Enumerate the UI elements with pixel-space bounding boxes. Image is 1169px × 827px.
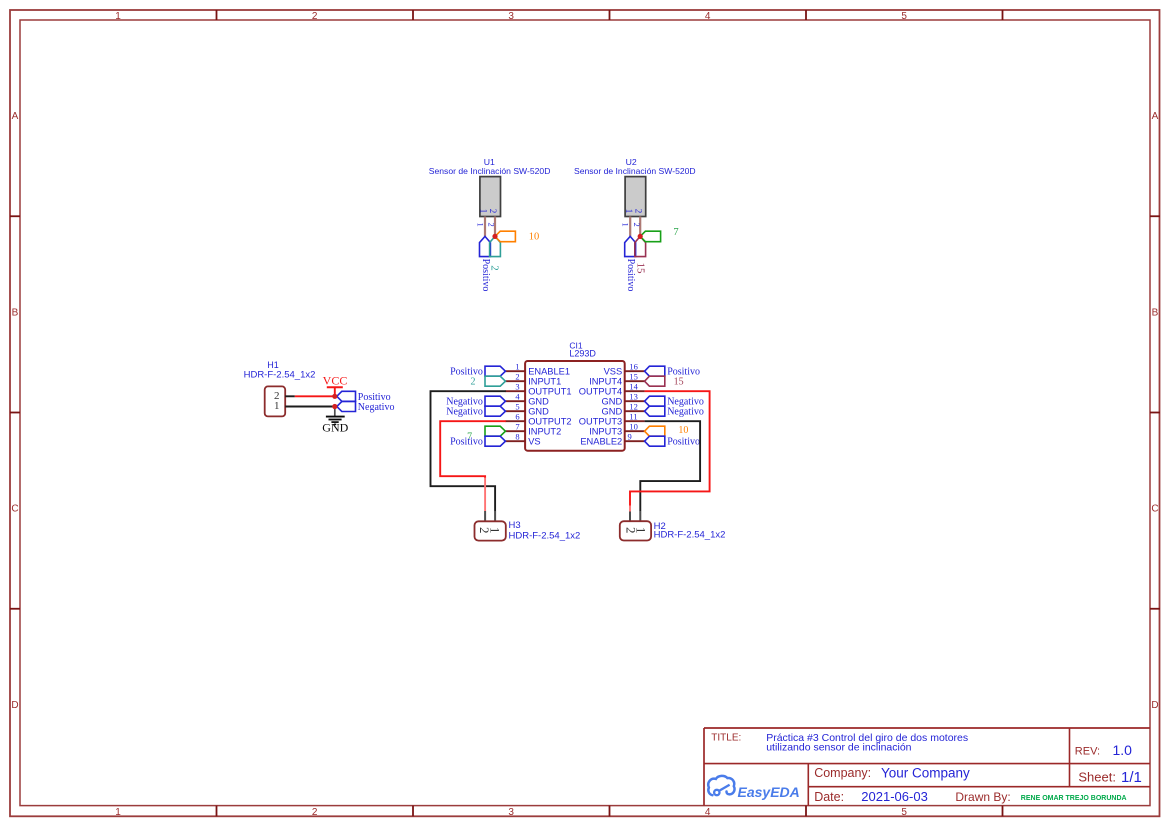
- svg-text:ENABLE2: ENABLE2: [580, 437, 622, 447]
- EasyEDA logo: [708, 776, 800, 800]
- svg-text:1: 1: [624, 209, 634, 214]
- net flag Negativo (CI1 pin 5): [446, 406, 505, 417]
- net flag Positivo (CI1 pin 1): [450, 366, 505, 377]
- svg-text:GND: GND: [322, 421, 348, 435]
- svg-text:5: 5: [901, 11, 907, 22]
- svg-text:RENE OMAR TREJO BORUNDA: RENE OMAR TREJO BORUNDA: [1021, 795, 1127, 802]
- svg-text:Date:: Date:: [814, 790, 844, 804]
- svg-text:5: 5: [515, 401, 519, 411]
- CI1 pin 7 INPUT2: [505, 421, 561, 436]
- svg-text:2: 2: [489, 265, 501, 271]
- svg-text:1: 1: [488, 527, 503, 534]
- svg-text:1: 1: [634, 527, 649, 534]
- CI1 pin 12 GND: [602, 401, 645, 416]
- svg-text:OUTPUT4: OUTPUT4: [579, 387, 622, 397]
- wire H1 pin 1 to GND node: [285, 406, 335, 408]
- U1 pin 2: [487, 209, 499, 237]
- svg-text:INPUT4: INPUT4: [589, 377, 622, 387]
- CI1 pin 1 ENABLE1: [505, 361, 570, 376]
- svg-text:3: 3: [508, 807, 514, 818]
- svg-text:INPUT3: INPUT3: [589, 427, 622, 437]
- svg-text:11: 11: [629, 411, 637, 421]
- svg-text:12: 12: [629, 401, 638, 411]
- wire H1 pin 2 to VCC node: [285, 395, 335, 397]
- svg-text:8: 8: [515, 431, 519, 441]
- svg-text:2: 2: [487, 222, 497, 226]
- CI1 pin 4 GND: [505, 391, 549, 406]
- svg-text:HDR-F-2.54_1x2: HDR-F-2.54_1x2: [244, 370, 316, 381]
- svg-text:Negativo: Negativo: [358, 402, 395, 413]
- svg-text:5: 5: [901, 807, 907, 818]
- CI1 pin 10 INPUT3: [589, 421, 644, 436]
- svg-text:13: 13: [629, 391, 638, 401]
- sensor U2 Sensor de Inclinacion SW-520D: [574, 157, 696, 217]
- title block Company: [814, 766, 970, 781]
- svg-text:1: 1: [115, 807, 121, 818]
- net flag 7 (CI1 pin 7): [467, 426, 505, 442]
- junction GND node: [332, 404, 337, 409]
- net flag Positivo (U2 pin 1): [625, 236, 636, 291]
- wire OUTPUT4 (CI1 pin 14) to H2 pin 2: [630, 391, 710, 521]
- svg-text:Sheet:: Sheet:: [1078, 769, 1116, 784]
- junction U2 pin 2: [638, 234, 643, 239]
- svg-text:REV:: REV:: [1075, 745, 1100, 757]
- svg-text:Sensor de Inclinación SW-520D: Sensor de Inclinación SW-520D: [429, 166, 551, 176]
- svg-text:1: 1: [115, 11, 121, 22]
- svg-text:2: 2: [471, 377, 476, 388]
- svg-text:1: 1: [274, 400, 280, 412]
- svg-text:GND: GND: [528, 397, 549, 407]
- title block Date: [814, 789, 928, 804]
- svg-text:Your Company: Your Company: [881, 766, 970, 781]
- svg-text:INPUT1: INPUT1: [528, 377, 561, 387]
- CI1 pin 6 OUTPUT2: [505, 411, 571, 426]
- svg-text:2: 2: [632, 222, 642, 226]
- svg-text:B: B: [1152, 307, 1159, 318]
- svg-text:HDR-F-2.54_1x2: HDR-F-2.54_1x2: [654, 530, 726, 541]
- svg-text:GND: GND: [602, 397, 623, 407]
- svg-text:10: 10: [678, 425, 688, 436]
- title block text TITLE: [711, 732, 968, 753]
- svg-text:Negativo: Negativo: [667, 407, 704, 418]
- svg-text:14: 14: [629, 381, 638, 391]
- title block Sheet: [1078, 769, 1141, 786]
- svg-text:15: 15: [634, 263, 646, 275]
- svg-text:4: 4: [705, 807, 711, 818]
- title block: [704, 728, 1150, 806]
- net flag 10 (CI1 pin 10): [645, 425, 689, 436]
- net flag Negativo (CI1 pin 4): [446, 396, 505, 407]
- svg-text:2: 2: [312, 807, 318, 818]
- net label 10 (U1 pin 2): [495, 231, 539, 242]
- connector H3 HDR-F-2.54_1x2: [475, 520, 581, 542]
- svg-text:2021-06-03: 2021-06-03: [861, 789, 928, 804]
- wire OUTPUT1 (CI1 pin 3) to H3 pin 1: [431, 391, 506, 521]
- net flag 15 (CI1 pin 15): [645, 376, 684, 387]
- net flag Positivo (H1 pin 2): [337, 391, 391, 403]
- svg-text:C: C: [1151, 504, 1158, 515]
- net flag 2 (U1 pin 2): [489, 236, 501, 270]
- connector H1 HDR-F-2.54_1x2: [244, 360, 316, 416]
- svg-text:16: 16: [629, 361, 638, 371]
- svg-text:4: 4: [515, 391, 520, 401]
- junction U1 pin 2: [492, 234, 497, 239]
- svg-text:HDR-F-2.54_1x2: HDR-F-2.54_1x2: [509, 530, 581, 541]
- U1 pin 1: [476, 209, 489, 237]
- svg-text:D: D: [1151, 700, 1158, 711]
- svg-text:3: 3: [508, 11, 514, 22]
- net flag Negativo (H1 pin 1): [337, 402, 395, 413]
- svg-text:10: 10: [629, 421, 638, 431]
- svg-text:H3: H3: [509, 520, 521, 531]
- CI1 pin 9 ENABLE2: [580, 431, 644, 446]
- svg-text:4: 4: [705, 11, 711, 22]
- ground GND: [322, 407, 348, 435]
- sensor U1 Sensor de Inclinacion SW-520D: [429, 157, 551, 217]
- CI1 pin 13 GND: [602, 391, 645, 406]
- svg-text:VSS: VSS: [604, 367, 623, 377]
- svg-text:10: 10: [529, 232, 540, 243]
- IC CI1 L293D: [525, 340, 625, 450]
- svg-text:15: 15: [674, 376, 684, 387]
- CI1 pin 8 VS: [505, 431, 540, 446]
- U2 pin 2: [632, 209, 644, 237]
- wire OUTPUT3 (CI1 pin 11) to H2 pin 1: [640, 421, 700, 521]
- svg-text:7: 7: [673, 227, 678, 238]
- net flag Positivo (CI1 pin 8): [450, 436, 505, 447]
- connector H2 HDR-F-2.54_1x2: [620, 521, 726, 541]
- wire OUTPUT2 (CI1 pin 6) to H3 pin 2: [440, 421, 506, 521]
- svg-text:D: D: [11, 700, 18, 711]
- svg-text:VS: VS: [528, 437, 540, 447]
- svg-text:Negativo: Negativo: [446, 407, 483, 418]
- CI1 pin 11 OUTPUT3: [579, 411, 645, 426]
- svg-text:Company:: Company:: [814, 766, 871, 780]
- svg-text:Sensor de Inclinación SW-520D: Sensor de Inclinación SW-520D: [574, 166, 696, 176]
- CI1 pin 2 INPUT1: [505, 371, 561, 386]
- svg-text:3: 3: [515, 381, 519, 391]
- title block Drawn By: [955, 790, 1126, 804]
- CI1 pin 16 VSS: [604, 361, 645, 376]
- svg-text:OUTPUT1: OUTPUT1: [528, 387, 571, 397]
- svg-text:EasyEDA: EasyEDA: [738, 784, 800, 800]
- svg-text:1: 1: [515, 361, 519, 371]
- net flag Negativo (CI1 pin 13): [645, 396, 704, 407]
- svg-text:Positivo: Positivo: [450, 437, 483, 448]
- svg-text:Positivo: Positivo: [667, 437, 700, 448]
- net label 7 (U2 pin 2): [640, 227, 678, 242]
- net flag Positivo (CI1 pin 9): [645, 436, 700, 447]
- net flag Positivo (CI1 pin 16): [645, 366, 700, 377]
- svg-text:ENABLE1: ENABLE1: [528, 367, 570, 377]
- svg-text:VCC: VCC: [323, 374, 348, 388]
- CI1 pin 14 OUTPUT4: [579, 381, 645, 396]
- svg-text:2: 2: [488, 209, 498, 214]
- svg-text:INPUT2: INPUT2: [528, 427, 561, 437]
- svg-text:B: B: [12, 307, 19, 318]
- net flag 2 (CI1 pin 2): [471, 376, 506, 387]
- svg-text:1: 1: [476, 222, 486, 226]
- svg-text:Positivo: Positivo: [450, 367, 483, 378]
- svg-text:GND: GND: [528, 407, 549, 417]
- svg-text:2: 2: [312, 11, 318, 22]
- svg-text:L293D: L293D: [569, 348, 596, 358]
- CI1 pin 5 GND: [505, 401, 549, 416]
- net flag 15 (U2 pin 2): [634, 236, 646, 274]
- svg-text:2: 2: [633, 209, 643, 214]
- CI1 pin 3 OUTPUT1: [505, 381, 571, 396]
- svg-text:utilizando sensor de inclinaci: utilizando sensor de inclinación: [766, 742, 911, 754]
- svg-text:7: 7: [515, 421, 519, 431]
- svg-text:1.0: 1.0: [1113, 742, 1133, 758]
- svg-text:OUTPUT3: OUTPUT3: [579, 417, 622, 427]
- svg-text:GND: GND: [602, 407, 623, 417]
- svg-text:H1: H1: [267, 360, 279, 370]
- svg-text:A: A: [1152, 111, 1159, 122]
- net flag Negativo (CI1 pin 12): [645, 406, 704, 417]
- svg-text:A: A: [12, 111, 19, 122]
- power flag VCC: [323, 374, 348, 397]
- svg-text:1/1: 1/1: [1121, 769, 1142, 786]
- svg-text:15: 15: [629, 371, 638, 381]
- svg-text:6: 6: [515, 411, 519, 421]
- svg-text:9: 9: [628, 431, 632, 441]
- svg-text:OUTPUT2: OUTPUT2: [528, 417, 571, 427]
- title block REV: [1075, 742, 1132, 758]
- svg-text:Positivo: Positivo: [480, 259, 491, 292]
- svg-text:C: C: [11, 504, 18, 515]
- svg-text:Drawn By:: Drawn By:: [955, 790, 1010, 804]
- svg-text:1: 1: [479, 209, 489, 214]
- CI1 pin 15 INPUT4: [589, 371, 644, 386]
- junction VCC node: [332, 394, 337, 399]
- svg-text:TITLE:: TITLE:: [711, 733, 741, 744]
- net flag Positivo (U1 pin 1): [480, 236, 491, 291]
- U2 pin 1: [621, 209, 634, 237]
- svg-text:2: 2: [515, 371, 519, 381]
- svg-text:1: 1: [621, 222, 631, 226]
